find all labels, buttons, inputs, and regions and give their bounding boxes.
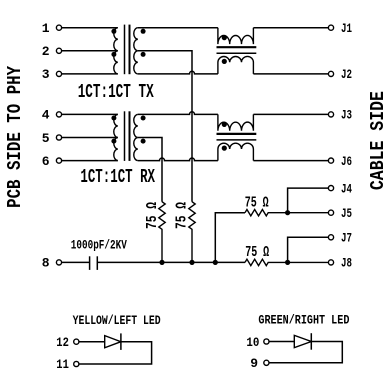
- resistor R1 75ohm vertical: [159, 202, 165, 263]
- junction dot R1/rail: [159, 260, 164, 265]
- pin 10: [246, 335, 269, 350]
- LED D1 triangle: [105, 336, 121, 348]
- svg-text:1000pF/2KV: 1000pF/2KV: [71, 239, 127, 253]
- svg-text:6: 6: [42, 154, 50, 169]
- pin 11: [56, 357, 79, 372]
- wire LED D2 to pin 9: [269, 342, 342, 363]
- wire T1 center tap to R2: [138, 51, 192, 202]
- pin 12: [56, 335, 79, 350]
- choke L1 core: [217, 47, 257, 53]
- choke L1 bottom phasing dot: [222, 59, 227, 64]
- resistor R3 75ohm horizontal: [245, 210, 328, 216]
- pin 3: [42, 67, 62, 82]
- wire T1 secondary top to choke L1: [138, 27, 218, 29]
- svg-text:4: 4: [42, 108, 50, 123]
- pin 5: [42, 131, 62, 146]
- wire pin6 to T2 primary: [62, 160, 118, 162]
- svg-text:3: 3: [42, 67, 50, 82]
- svg-text:J4: J4: [341, 181, 352, 196]
- T1 primary phasing dot top: [111, 29, 116, 34]
- pin 2: [42, 44, 62, 59]
- choke L2 bottom phasing dot: [222, 146, 227, 151]
- pin J2: [328, 67, 352, 82]
- pin 8: [42, 256, 62, 271]
- wire branch to J4: [288, 188, 329, 213]
- svg-text:J3: J3: [341, 108, 352, 123]
- svg-text:1CT:1CT TX: 1CT:1CT TX: [78, 81, 154, 103]
- resistor R2 75ohm vertical: [189, 202, 195, 263]
- pin 9: [250, 356, 269, 371]
- svg-text:PCB SIDE TO PHY: PCB SIDE TO PHY: [4, 65, 26, 207]
- wire pin5 to T2 primary: [62, 137, 118, 139]
- svg-text:8: 8: [42, 256, 50, 271]
- wire choke L1 bottom to J2: [253, 73, 328, 75]
- svg-text:10: 10: [246, 335, 259, 350]
- wire pin10 to LED D2: [269, 341, 294, 343]
- junction dot J4 branch: [285, 210, 290, 215]
- svg-text:1: 1: [42, 21, 50, 36]
- pin J3: [328, 108, 352, 123]
- resistor R4 75ohm horizontal on rail: [245, 259, 328, 265]
- T1 primary phasing dot bottom: [111, 52, 116, 57]
- svg-text:1CT:1CT RX: 1CT:1CT RX: [80, 166, 155, 188]
- LED D2 triangle: [294, 335, 311, 347]
- wire pin2 to T1 primary: [62, 50, 118, 52]
- transformer T2 core: [125, 111, 130, 161]
- T2 secondary phasing dot top: [141, 116, 146, 121]
- wire T2 secondary top to choke L2 (hop over R2 line): [138, 112, 218, 115]
- pin 1: [42, 21, 62, 36]
- wire pin12 to LED D1: [79, 341, 105, 343]
- wire rail riser to R3: [215, 213, 245, 263]
- wire T1 secondary bottom to choke L1 (hop over R2 line): [138, 71, 218, 74]
- pin J8: [328, 256, 352, 271]
- svg-text:12: 12: [56, 335, 69, 350]
- pin J6: [328, 154, 352, 169]
- junction dot riser/rail: [213, 260, 218, 265]
- T2 secondary phasing dot bottom: [141, 139, 146, 144]
- wire choke L2 top to J3: [253, 113, 328, 115]
- pin J1: [328, 21, 352, 36]
- capacitor C1 plates: [90, 256, 98, 270]
- svg-text:J7: J7: [341, 231, 352, 246]
- choke L2 top phasing dot: [222, 122, 227, 127]
- wire T2 center tap to R1: [138, 138, 162, 202]
- svg-text:J8: J8: [341, 256, 352, 271]
- pin 4: [42, 108, 62, 123]
- choke L1 top phasing dot: [222, 35, 227, 40]
- transformer T1 primary winding: [114, 28, 118, 74]
- wire pin3 to T1 primary: [62, 73, 118, 75]
- wire T2 secondary bottom to choke L2 (hops over R1,R2 lines): [138, 158, 218, 161]
- junction dot R2/rail: [189, 260, 194, 265]
- wire branch to J7: [288, 237, 329, 262]
- pin J5: [328, 206, 352, 221]
- LED D2 cathode bar: [310, 333, 312, 350]
- transformer T1 core: [125, 25, 130, 75]
- choke L2 bottom winding: [218, 143, 254, 160]
- svg-text:75 Ω: 75 Ω: [245, 195, 269, 212]
- T2 primary phasing dot top: [111, 116, 116, 121]
- transformer T2 secondary winding: [134, 114, 138, 160]
- svg-text:75 Ω: 75 Ω: [173, 202, 190, 229]
- wire choke L1 top to J1: [253, 27, 328, 29]
- choke L2 top winding: [218, 114, 254, 130]
- choke L1 bottom winding: [218, 56, 254, 73]
- transformer T1 secondary winding: [134, 28, 138, 74]
- svg-text:J2: J2: [341, 67, 352, 82]
- svg-text:J5: J5: [341, 206, 352, 221]
- transformer T2 primary winding: [114, 114, 118, 160]
- svg-text:J1: J1: [341, 21, 352, 36]
- svg-text:75 Ω: 75 Ω: [245, 244, 269, 261]
- svg-text:CABLE SIDE: CABLE SIDE: [367, 91, 387, 190]
- svg-text:J6: J6: [341, 154, 352, 169]
- svg-text:YELLOW/LEFT LED: YELLOW/LEFT LED: [73, 314, 161, 328]
- choke L2 core: [217, 134, 257, 140]
- svg-text:75 Ω: 75 Ω: [144, 202, 161, 229]
- svg-text:9: 9: [250, 356, 258, 371]
- wire ground rail C1 to J8: [97, 261, 245, 263]
- wire pin4 to T2 primary: [62, 113, 118, 115]
- LED D1 cathode bar: [120, 333, 122, 350]
- svg-text:GREEN/RIGHT LED: GREEN/RIGHT LED: [258, 314, 349, 328]
- choke L1 top winding: [218, 28, 254, 44]
- wire pin1 to T1 primary: [62, 27, 118, 29]
- pin J7: [328, 231, 352, 246]
- pin J4: [328, 181, 352, 196]
- pin 6: [42, 154, 62, 169]
- wire LED D1 to pin 11: [79, 342, 152, 364]
- svg-text:5: 5: [42, 131, 50, 146]
- svg-text:2: 2: [42, 44, 50, 59]
- svg-text:11: 11: [56, 357, 69, 372]
- wire choke L2 bottom to J6: [253, 160, 328, 162]
- T2 primary phasing dot bottom: [111, 139, 116, 144]
- wire pin8 to C1: [62, 261, 90, 263]
- junction dot J7 branch: [285, 260, 290, 265]
- T1 secondary phasing dot top: [141, 29, 146, 34]
- T1 secondary phasing dot bottom: [141, 52, 146, 57]
